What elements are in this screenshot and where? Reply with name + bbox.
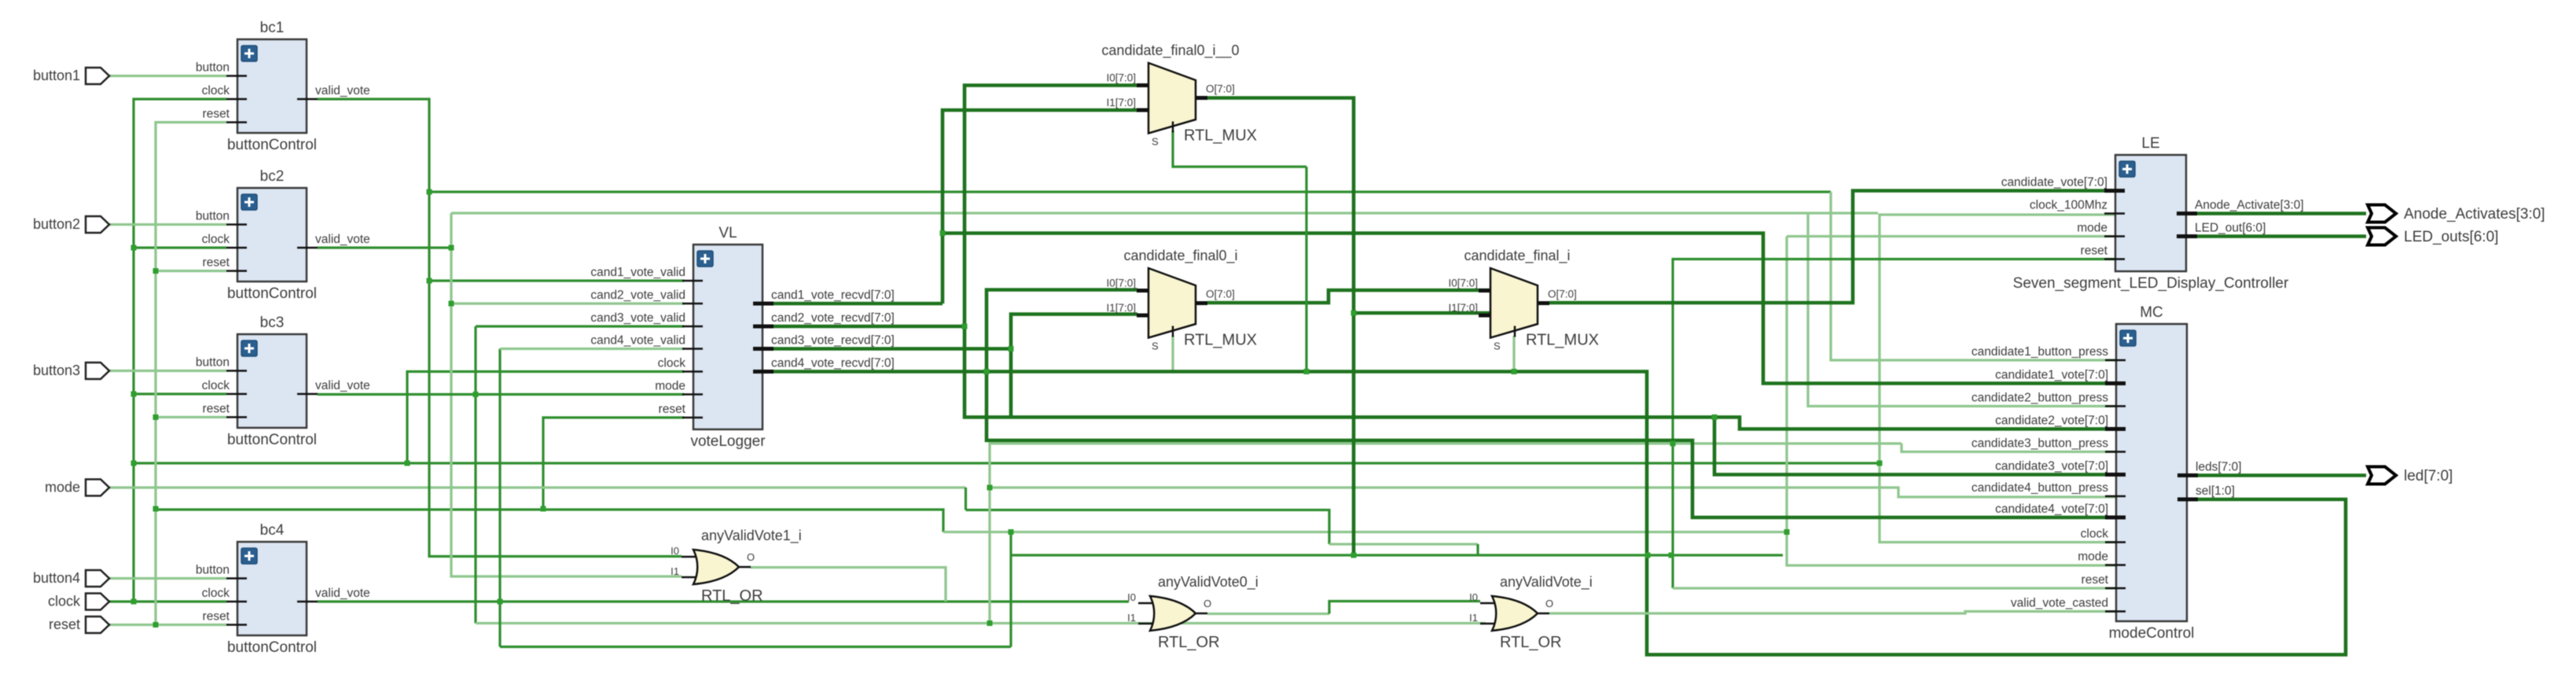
svg-text:S: S bbox=[1152, 136, 1159, 148]
svg-text:RTL_MUX: RTL_MUX bbox=[1184, 127, 1257, 145]
svg-text:RTL_OR: RTL_OR bbox=[1500, 634, 1562, 651]
svg-text:candidate_final0_i: candidate_final0_i bbox=[1123, 248, 1237, 264]
svg-text:S: S bbox=[1494, 340, 1501, 352]
svg-text:anyValidVote0_i: anyValidVote0_i bbox=[1158, 574, 1259, 591]
svg-text:buttonControl: buttonControl bbox=[227, 137, 317, 153]
svg-text:bc3: bc3 bbox=[260, 315, 285, 331]
svg-text:buttonControl: buttonControl bbox=[227, 285, 317, 302]
svg-text:I0[7:0]: I0[7:0] bbox=[1448, 278, 1478, 289]
svg-text:mode: mode bbox=[655, 380, 685, 393]
svg-text:I0[7:0]: I0[7:0] bbox=[1106, 278, 1136, 289]
svg-text:RTL_OR: RTL_OR bbox=[1158, 634, 1220, 651]
svg-text:cand2_vote_recvd[7:0]: cand2_vote_recvd[7:0] bbox=[771, 311, 895, 325]
svg-text:O[7:0]: O[7:0] bbox=[1206, 83, 1235, 95]
svg-text:I1: I1 bbox=[1469, 612, 1478, 624]
svg-text:MC: MC bbox=[2140, 304, 2163, 321]
svg-text:modeControl: modeControl bbox=[2109, 625, 2195, 642]
svg-text:button3: button3 bbox=[33, 363, 80, 378]
svg-text:reset: reset bbox=[203, 256, 230, 270]
svg-text:candidate_final0_i__0: candidate_final0_i__0 bbox=[1101, 42, 1239, 59]
svg-text:Anode_Activates[3:0]: Anode_Activates[3:0] bbox=[2404, 206, 2545, 223]
svg-text:LE: LE bbox=[2141, 135, 2159, 152]
svg-text:clock: clock bbox=[658, 357, 686, 370]
svg-text:clock: clock bbox=[202, 233, 230, 246]
svg-text:leds[7:0]: leds[7:0] bbox=[2196, 461, 2242, 474]
svg-text:button: button bbox=[196, 564, 230, 577]
svg-text:Anode_Activate[3:0]: Anode_Activate[3:0] bbox=[2195, 199, 2304, 212]
svg-text:valid_vote: valid_vote bbox=[315, 587, 370, 600]
svg-text:RTL_MUX: RTL_MUX bbox=[1184, 332, 1257, 349]
svg-text:clock_100Mhz: clock_100Mhz bbox=[2030, 199, 2107, 212]
svg-text:voteLogger: voteLogger bbox=[690, 433, 766, 450]
svg-text:clock: clock bbox=[202, 84, 230, 98]
svg-text:O[7:0]: O[7:0] bbox=[1206, 289, 1235, 300]
svg-text:valid_vote: valid_vote bbox=[315, 379, 370, 392]
svg-text:clock: clock bbox=[2081, 528, 2109, 541]
svg-text:I1: I1 bbox=[671, 565, 679, 577]
svg-text:sel[1:0]: sel[1:0] bbox=[2196, 484, 2235, 498]
svg-text:O: O bbox=[1545, 598, 1553, 609]
svg-text:button2: button2 bbox=[33, 216, 80, 232]
svg-text:bc1: bc1 bbox=[260, 20, 285, 36]
svg-text:clock: clock bbox=[48, 594, 81, 609]
svg-text:anyValidVote_i: anyValidVote_i bbox=[1500, 574, 1593, 591]
svg-text:button4: button4 bbox=[33, 570, 80, 586]
svg-text:reset: reset bbox=[203, 610, 230, 624]
svg-text:S: S bbox=[1152, 340, 1159, 352]
svg-text:led[7:0]: led[7:0] bbox=[2404, 468, 2453, 484]
svg-text:bc4: bc4 bbox=[260, 522, 285, 539]
svg-text:candidate4_vote[7:0]: candidate4_vote[7:0] bbox=[1995, 502, 2108, 516]
svg-text:valid_vote: valid_vote bbox=[315, 233, 370, 246]
svg-text:I1[7:0]: I1[7:0] bbox=[1448, 302, 1478, 314]
svg-text:mode: mode bbox=[2078, 550, 2108, 564]
svg-text:RTL_MUX: RTL_MUX bbox=[1526, 332, 1599, 349]
svg-text:candidate_vote[7:0]: candidate_vote[7:0] bbox=[2001, 176, 2107, 190]
svg-text:candidate4_button_press: candidate4_button_press bbox=[1972, 481, 2108, 495]
svg-text:candidate_final_i: candidate_final_i bbox=[1464, 248, 1570, 264]
svg-text:cand3_vote_valid: cand3_vote_valid bbox=[590, 311, 685, 325]
svg-text:candidate3_vote[7:0]: candidate3_vote[7:0] bbox=[1995, 460, 2108, 473]
svg-text:O: O bbox=[747, 551, 755, 563]
svg-text:mode: mode bbox=[2077, 222, 2107, 235]
svg-text:VL: VL bbox=[718, 225, 737, 241]
svg-text:buttonControl: buttonControl bbox=[227, 639, 317, 656]
svg-text:LED_outs[6:0]: LED_outs[6:0] bbox=[2404, 229, 2498, 245]
svg-text:reset: reset bbox=[659, 403, 686, 416]
svg-text:valid_vote: valid_vote bbox=[315, 84, 370, 98]
svg-text:clock: clock bbox=[202, 587, 230, 600]
svg-text:I1: I1 bbox=[1127, 612, 1136, 624]
svg-text:cand1_vote_valid: cand1_vote_valid bbox=[590, 266, 685, 279]
svg-text:reset: reset bbox=[49, 617, 80, 632]
svg-text:I1[7:0]: I1[7:0] bbox=[1106, 97, 1136, 109]
svg-text:Seven_segment_LED_Display_Cont: Seven_segment_LED_Display_Controller bbox=[2013, 275, 2289, 292]
svg-text:reset: reset bbox=[2081, 245, 2108, 258]
svg-text:O: O bbox=[1203, 598, 1211, 609]
svg-text:I0: I0 bbox=[671, 545, 679, 557]
svg-text:I0: I0 bbox=[1469, 591, 1478, 603]
svg-text:button1: button1 bbox=[33, 68, 80, 83]
svg-text:LED_out[6:0]: LED_out[6:0] bbox=[2195, 222, 2265, 235]
svg-text:reset: reset bbox=[203, 403, 230, 416]
svg-text:cand3_vote_recvd[7:0]: cand3_vote_recvd[7:0] bbox=[771, 334, 895, 348]
svg-text:O[7:0]: O[7:0] bbox=[1548, 289, 1577, 300]
svg-text:candidate1_button_press: candidate1_button_press bbox=[1972, 345, 2108, 359]
svg-text:anyValidVote1_i: anyValidVote1_i bbox=[701, 528, 802, 544]
svg-text:cand4_vote_recvd[7:0]: cand4_vote_recvd[7:0] bbox=[771, 357, 895, 370]
svg-text:button: button bbox=[196, 356, 230, 370]
svg-text:RTL_OR: RTL_OR bbox=[701, 587, 763, 605]
svg-text:buttonControl: buttonControl bbox=[227, 432, 317, 448]
svg-text:I1[7:0]: I1[7:0] bbox=[1106, 302, 1136, 314]
svg-text:I0[7:0]: I0[7:0] bbox=[1106, 72, 1136, 84]
svg-text:button: button bbox=[196, 210, 230, 223]
svg-text:cand4_vote_valid: cand4_vote_valid bbox=[590, 334, 685, 348]
svg-text:cand2_vote_valid: cand2_vote_valid bbox=[590, 289, 685, 302]
svg-text:clock: clock bbox=[202, 379, 230, 392]
svg-text:bc2: bc2 bbox=[260, 168, 285, 185]
svg-text:reset: reset bbox=[203, 108, 230, 121]
svg-text:candidate2_button_press: candidate2_button_press bbox=[1972, 392, 2108, 405]
svg-text:candidate3_button_press: candidate3_button_press bbox=[1972, 437, 2108, 451]
svg-text:candidate2_vote[7:0]: candidate2_vote[7:0] bbox=[1995, 414, 2108, 428]
svg-text:button: button bbox=[196, 61, 230, 75]
svg-text:I0: I0 bbox=[1127, 591, 1136, 603]
svg-text:cand1_vote_recvd[7:0]: cand1_vote_recvd[7:0] bbox=[771, 289, 895, 302]
svg-text:candidate1_vote[7:0]: candidate1_vote[7:0] bbox=[1995, 369, 2108, 382]
svg-text:mode: mode bbox=[45, 480, 80, 495]
svg-text:valid_vote_casted: valid_vote_casted bbox=[2011, 597, 2108, 610]
svg-text:reset: reset bbox=[2082, 573, 2109, 587]
